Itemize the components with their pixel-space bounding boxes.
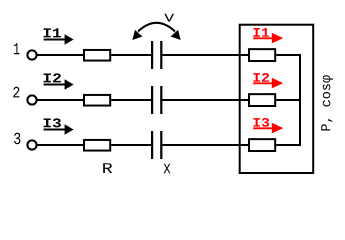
red arrow I3 head	[272, 123, 283, 134]
red arrow I1 head	[272, 33, 283, 44]
terminal circle phase 1	[27, 50, 36, 59]
current label I1 (black)	[44, 28, 61, 37]
wattmeter box outline	[240, 25, 314, 173]
current arrow I2 head	[65, 79, 74, 90]
current label I3 (red)	[253, 118, 269, 127]
terminal label 1	[14, 43, 20, 54]
resistor R phase 2	[84, 95, 110, 106]
capacitor X phase 2 plate left	[151, 86, 153, 114]
resistor R phase 3	[84, 140, 110, 151]
terminal label 3	[14, 133, 20, 145]
value label R	[103, 163, 112, 173]
current arrow I3 shaft	[44, 129, 66, 131]
terminal circle phase 3	[27, 140, 36, 149]
current label I2 (black)	[44, 73, 61, 82]
current label I1 (red)	[253, 28, 269, 37]
label V	[164, 14, 174, 22]
resistor R phase 1	[84, 50, 110, 61]
wire R2 to C2	[111, 99, 152, 101]
variable arc arrowhead right	[171, 30, 181, 40]
value label X	[164, 164, 171, 174]
capacitor X phase 3 plate right	[160, 131, 162, 159]
load element phase 1	[249, 49, 275, 61]
capacitor X phase 3 plate left	[151, 131, 153, 159]
wire terminal1 to R1	[37, 54, 84, 56]
variable arc arrowhead left	[132, 30, 142, 40]
wire C2 to wattmeter box	[162, 99, 250, 101]
wire load2 to bus	[276, 99, 300, 101]
current label I2 (red)	[253, 73, 269, 82]
wire R3 to C3	[111, 144, 152, 146]
wire terminal2 to R2	[37, 99, 84, 101]
variable arrow arc V	[138, 23, 175, 32]
red arrow I1 shaft	[253, 37, 273, 39]
terminal circle phase 2	[27, 95, 36, 104]
load element phase 3	[249, 139, 275, 151]
capacitor X phase 2 plate right	[160, 86, 162, 114]
current label I3 (black)	[44, 118, 61, 127]
wire load3 to bus	[276, 144, 300, 146]
wire load1 to bus	[276, 54, 300, 56]
wire R1 to C1	[111, 54, 152, 56]
current arrow I1 shaft	[44, 39, 66, 41]
current arrow I2 shaft	[44, 84, 66, 86]
current arrow I3 head	[65, 124, 74, 135]
wire C3 to wattmeter box	[162, 144, 250, 146]
terminal label 2	[13, 87, 19, 98]
wire C1 to wattmeter box	[162, 54, 250, 56]
wire terminal3 to R3	[37, 144, 84, 146]
red arrow I2 head	[272, 78, 283, 89]
load element phase 2	[249, 94, 275, 106]
capacitor X phase 1 plate right	[160, 41, 162, 69]
red arrow I3 shaft	[253, 127, 273, 129]
neutral bus vertical wire	[299, 54, 301, 146]
wattmeter label P, cos phi	[321, 75, 333, 130]
current arrow I1 head	[65, 34, 74, 45]
capacitor X phase 1 plate left	[151, 41, 153, 69]
red arrow I2 shaft	[253, 82, 273, 84]
